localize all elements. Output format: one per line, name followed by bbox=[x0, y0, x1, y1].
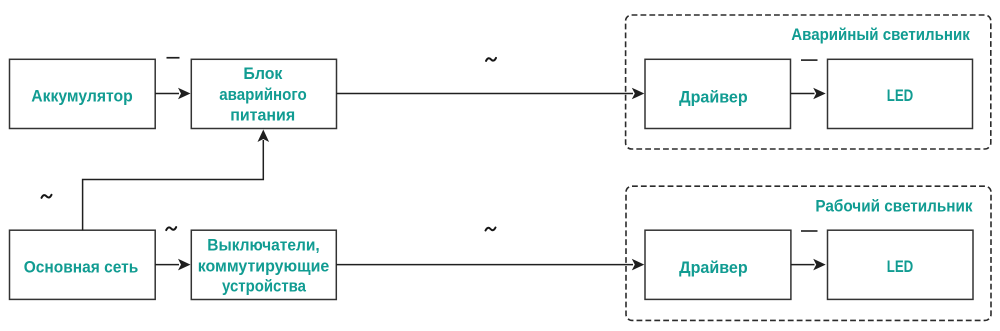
svg-text:Драйвер: Драйвер bbox=[679, 258, 748, 277]
minus label (DC) above arrow Аккумулятор→Блок bbox=[167, 57, 180, 59]
svg-text:коммутирующие: коммутирующие bbox=[198, 257, 330, 276]
wire arrow Основная сеть→Выключатели bbox=[155, 259, 190, 271]
wire arrow Блок→Драйвер1 bbox=[337, 88, 645, 100]
minus label (DC) above arrow Драйвер1→LED1 bbox=[801, 59, 818, 61]
svg-text:Выключатели,: Выключатели, bbox=[207, 235, 320, 254]
svg-text:Аварийный светильник: Аварийный светильник bbox=[791, 25, 970, 44]
dashed group Аварийный светильник bbox=[626, 15, 991, 149]
svg-text:LED: LED bbox=[887, 86, 914, 105]
wire Основная сеть→Блок (riser with arrow up) bbox=[83, 130, 270, 231]
svg-text:Основная сеть: Основная сеть bbox=[24, 258, 139, 277]
svg-text:аварийного: аварийного bbox=[219, 85, 307, 104]
block Блок аварийного питания bbox=[191, 59, 336, 128]
svg-text:Драйвер: Драйвер bbox=[679, 87, 748, 106]
block Основная сеть bbox=[10, 230, 156, 299]
tilde label (AC) above wire Блок→Драйвер1 bbox=[486, 58, 496, 61]
svg-text:LED: LED bbox=[887, 257, 914, 276]
block Выключатели, коммутирующие устройства bbox=[191, 230, 336, 299]
svg-text:Блок: Блок bbox=[243, 64, 283, 83]
tilde label (AC) above arrow Основная сеть→Выключатели bbox=[166, 227, 176, 230]
wire arrow Аккумулятор→Блок bbox=[155, 88, 190, 100]
wire arrow Выключатели→Драйвер2 bbox=[336, 259, 644, 271]
dashed group Рабочий светильник bbox=[626, 186, 991, 320]
block Драйвер (рабочий) bbox=[645, 230, 791, 299]
block Драйвер (аварийный) bbox=[645, 59, 791, 128]
block Аккумулятор bbox=[10, 59, 156, 128]
tilde label (AC) near riser wire bbox=[42, 195, 52, 198]
svg-text:питания: питания bbox=[230, 105, 295, 124]
svg-text:устройства: устройства bbox=[222, 276, 307, 295]
tilde label (AC) above wire Выключатели→Драйвер2 bbox=[486, 228, 496, 231]
block LED (аварийный) bbox=[828, 59, 973, 128]
minus label (DC) above arrow Драйвер2→LED2 bbox=[801, 230, 818, 232]
wire arrow Драйвер1→LED1 bbox=[791, 88, 826, 100]
svg-text:Аккумулятор: Аккумулятор bbox=[31, 87, 133, 106]
block LED (рабочий) bbox=[828, 230, 974, 299]
svg-text:Рабочий светильник: Рабочий светильник bbox=[815, 196, 973, 215]
wire arrow Драйвер2→LED2 bbox=[791, 259, 826, 271]
